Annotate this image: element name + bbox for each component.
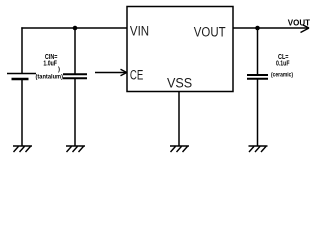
wire VSS to ground [178, 92, 180, 147]
CE input arrow [95, 69, 127, 75]
op-amp U1 regulator box [127, 7, 233, 92]
ground (battery) [13, 146, 32, 152]
wire output VOUT net [233, 27, 309, 29]
node junction VIN/CIN [73, 26, 78, 31]
VOUT output arrowhead [301, 25, 310, 33]
svg-text:): ) [58, 67, 60, 73]
wire left vertical battery top [21, 27, 23, 73]
svg-text:0.1uF: 0.1uF [276, 61, 290, 68]
wire CIN branch lower [74, 78, 76, 146]
svg-text:(ceramic): (ceramic) [271, 72, 293, 79]
svg-text:VIN: VIN [130, 24, 149, 39]
label CL value [271, 54, 293, 79]
wire CIN branch upper [74, 28, 76, 74]
battery BT1 [7, 74, 36, 80]
ground (VSS) [170, 146, 189, 152]
wire top-left horizontal VIN net [21, 27, 127, 29]
wire CL branch lower [257, 79, 259, 146]
svg-text:(tantalum): (tantalum) [36, 75, 64, 81]
ground (CIN) [66, 146, 85, 152]
svg-text:VSS: VSS [167, 76, 192, 91]
ground (CL) [249, 146, 268, 152]
node junction VOUT/CL [255, 26, 260, 31]
wire battery to ground [21, 79, 23, 146]
svg-text:CE: CE [130, 67, 143, 82]
svg-text:VOUT: VOUT [288, 19, 310, 28]
capacitor CIN [63, 74, 87, 78]
svg-text:1.0uF: 1.0uF [43, 61, 57, 68]
capacitor CL [247, 75, 268, 79]
label CIN value [36, 54, 64, 81]
wire CL branch upper [257, 28, 259, 75]
svg-text:VOUT: VOUT [194, 24, 226, 39]
